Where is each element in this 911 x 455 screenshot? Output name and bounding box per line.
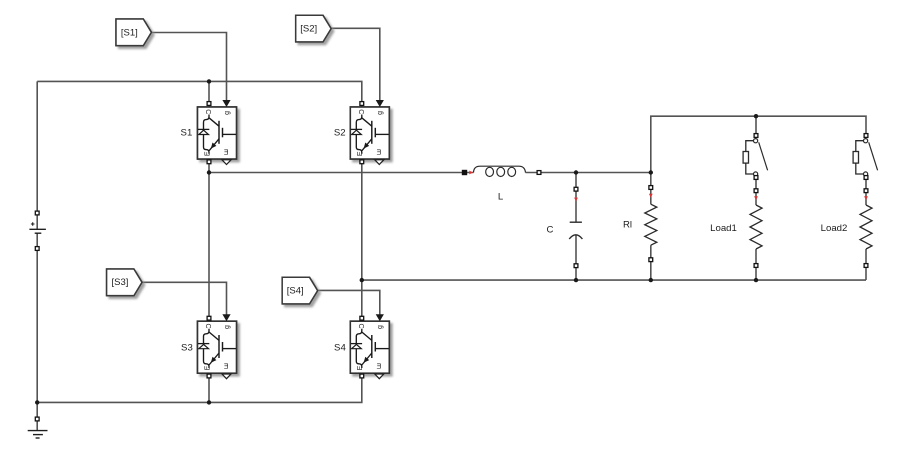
svg-text:Load2: Load2 [821,223,848,234]
svg-text:[S4]: [S4] [287,286,304,297]
svg-text:[S1]: [S1] [121,27,138,38]
svg-text:C: C [547,225,554,236]
svg-text:S4: S4 [334,343,346,354]
svg-text:Load1: Load1 [710,223,737,234]
svg-text:[S2]: [S2] [300,23,317,34]
svg-text:S3: S3 [181,343,193,354]
svg-text:S2: S2 [334,128,346,139]
svg-text:[S3]: [S3] [112,277,129,288]
svg-text:Rl: Rl [623,220,632,231]
svg-text:L: L [498,192,504,203]
svg-text:S1: S1 [181,128,193,139]
